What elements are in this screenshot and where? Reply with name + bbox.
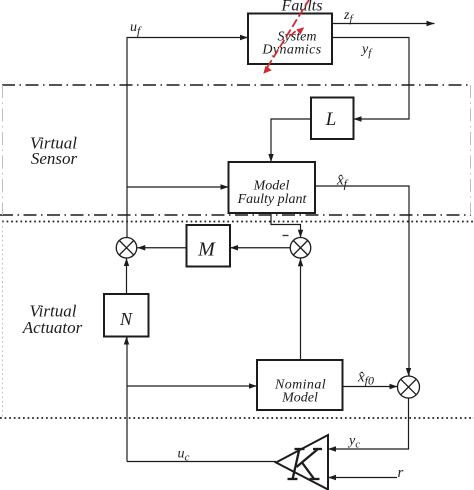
fault red dashed arrow xyxy=(267,0,309,68)
svg-text:L: L xyxy=(325,109,337,130)
wire from Model Faulty plant bottom to summer S2 xyxy=(271,213,301,238)
wire u_f vertical from summer S1 up xyxy=(127,38,248,238)
wire x_f0 hat from Nominal Model right to summer S3 xyxy=(343,386,398,388)
arrow into System Dynamics left xyxy=(240,35,248,40)
fault arrowhead bottom below box xyxy=(263,66,272,74)
arrow into M right xyxy=(230,245,238,251)
virtual actuator region dotted frame left xyxy=(2,222,4,419)
wire N to summer S1 xyxy=(126,258,128,294)
arrow into Model Faulty plant left xyxy=(221,184,229,189)
arrow z_f end xyxy=(427,21,435,26)
arrow into Model Faulty plant top xyxy=(268,154,273,162)
box N xyxy=(104,294,149,337)
wire branch to Nominal Model xyxy=(127,385,257,387)
box L xyxy=(311,98,354,140)
minus sign at summer S2 xyxy=(283,235,289,237)
wire Nominal Model top to summer S2 xyxy=(300,258,302,360)
arrow into summer S2 bottom xyxy=(298,258,303,266)
svg-text:uf: uf xyxy=(130,20,142,37)
controller K triangle xyxy=(276,435,328,490)
box M xyxy=(187,225,231,267)
svg-text:Sensor: Sensor xyxy=(31,149,78,168)
wire M to summer S1 xyxy=(137,247,186,249)
virtual sensor region dash-dot frame bottom xyxy=(0,214,471,216)
box System Dynamics xyxy=(248,14,332,65)
wire u_c from K apex left to corner xyxy=(127,461,276,463)
wire z_f xyxy=(332,23,435,25)
wire x_f hat from Model Faulty plant right down to summer S3 xyxy=(315,186,409,376)
svg-text:Model: Model xyxy=(281,391,318,406)
arrow into K right lower xyxy=(328,475,336,480)
svg-text:N: N xyxy=(119,309,133,329)
svg-text:r: r xyxy=(398,465,404,481)
label Virtual Actuator xyxy=(22,302,83,338)
wire r into K xyxy=(328,477,397,479)
wire from L left down into Model Faulty plant top xyxy=(271,119,311,162)
arrow into Nominal Model left xyxy=(249,383,257,388)
fault arrowhead up-right near System text xyxy=(296,27,304,34)
svg-text:Faulty plant: Faulty plant xyxy=(237,192,308,207)
virtual actuator region dotted frame top xyxy=(2,221,474,223)
arrow into summer S3 top xyxy=(406,368,411,376)
svg-text:Actuator: Actuator xyxy=(22,318,83,337)
arrow into summer S2 top xyxy=(298,230,303,238)
wire y_c from summer S3 bottom to K xyxy=(328,398,409,449)
wire y_f from box right down to L xyxy=(332,38,409,120)
box Nominal Model xyxy=(257,360,343,410)
arrow into summer S3 left xyxy=(390,384,398,389)
virtual sensor region dash-dot frame right xyxy=(470,85,472,215)
virtual actuator region dotted frame bottom xyxy=(0,417,474,419)
virtual sensor region dash-dot frame left xyxy=(2,85,4,215)
label Virtual Sensor xyxy=(30,134,77,169)
arrow into L right xyxy=(354,116,362,121)
arrow into K right upper xyxy=(328,446,336,451)
svg-text:Dynamics: Dynamics xyxy=(261,43,321,58)
arrow into summer S1 bottom xyxy=(124,258,129,266)
summer S3 circle with cross xyxy=(398,376,420,398)
box Model Faulty plant xyxy=(229,162,316,213)
wire summer S2 to M xyxy=(230,247,290,249)
svg-text:M: M xyxy=(197,239,216,261)
arrow into N bottom xyxy=(124,337,129,345)
wire from u_c corner up into N bottom xyxy=(126,337,128,462)
summer S2 circle with cross xyxy=(290,238,311,259)
wire u_f branch into Model Faulty plant xyxy=(127,186,229,188)
summer S1 circle with cross xyxy=(116,238,137,259)
virtual sensor region dash-dot frame top xyxy=(2,84,471,86)
arrow into summer S1 right xyxy=(137,245,145,251)
